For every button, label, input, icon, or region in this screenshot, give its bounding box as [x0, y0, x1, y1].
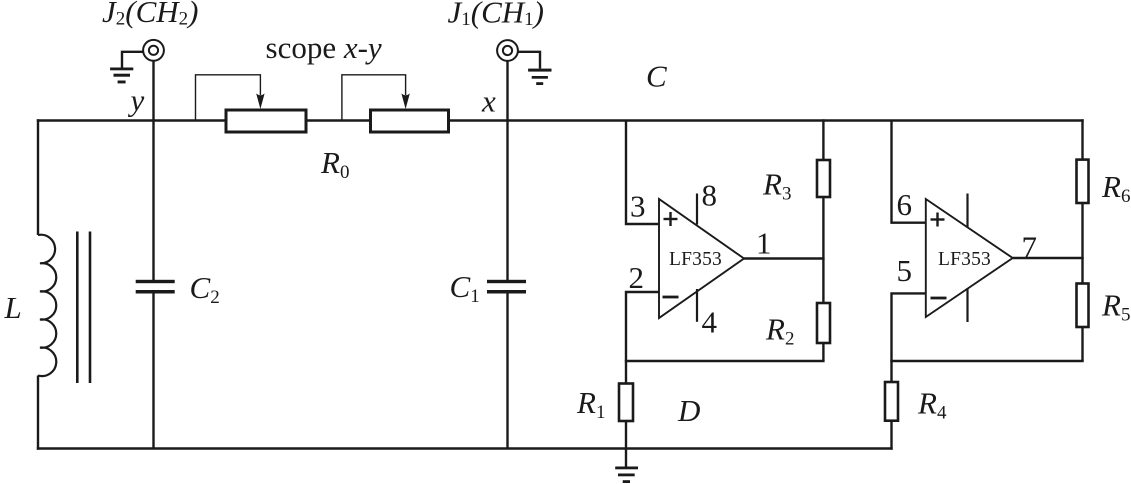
wire feedback net U2 (pin5 to R5 bottom): [890, 360, 1083, 362]
wire U1 pin3 branch from top rail: [626, 121, 659, 225]
svg-text:R3: R3: [762, 167, 791, 205]
svg-text:x: x: [481, 84, 496, 119]
wire R1 bottom lead to bottom rail: [625, 421, 627, 449]
svg-text:1: 1: [756, 226, 772, 261]
svg-text:scope x-y: scope x-y: [266, 30, 382, 65]
wire feedback net U1 (pin2 to R2 bottom): [625, 360, 825, 362]
svg-text:J1(CH1): J1(CH1): [448, 0, 544, 30]
inductor core line 1: [76, 232, 79, 384]
wire bottom rail D from left corner to R4 column: [37, 447, 893, 449]
wire C1 bottom plate to bottom rail: [506, 294, 508, 449]
svg-text:R0: R0: [320, 145, 349, 183]
wiper arrow 2 head: [401, 94, 409, 110]
potentiometer R0 element 2: [371, 110, 449, 132]
svg-text:R1: R1: [576, 385, 605, 423]
op-amp U1 pin8 power stub: [696, 194, 698, 225]
wire R5 bottom lead to feedback net: [1081, 327, 1083, 361]
wire left vertical upper (top rail to inductor): [37, 119, 39, 235]
svg-text:4: 4: [702, 305, 718, 340]
wire J2 jack down through node y to C2 top plate: [152, 61, 154, 280]
wire R3 top lead to top rail: [822, 119, 824, 160]
wire left vertical lower (inductor to bottom rail): [37, 376, 39, 450]
op-amp U1 minus input mark: [663, 296, 679, 299]
wire R6 top lead to top rail: [1081, 119, 1083, 159]
svg-text:R6: R6: [1101, 169, 1130, 207]
wiper arrow 1 head: [256, 94, 264, 110]
resistor R3: [817, 160, 830, 197]
wire R2 bottom lead to feedback net: [822, 343, 824, 361]
wire R4 bottom lead to bottom rail: [890, 421, 892, 450]
resistor R4: [885, 382, 898, 421]
wire scope-y wiper bracket: [196, 75, 261, 121]
svg-text:C: C: [646, 59, 667, 94]
svg-text:7: 7: [1022, 230, 1038, 265]
svg-text:R4: R4: [917, 386, 947, 424]
wire C2 bottom plate to bottom rail: [152, 294, 154, 449]
wire R4 top lead: [890, 361, 892, 382]
wire J2 ground stub: [122, 52, 144, 68]
op-amp U1 plus input mark: [664, 212, 678, 226]
wire scope-x wiper bracket: [342, 75, 406, 121]
svg-text:R2: R2: [765, 312, 794, 350]
wire R6 bottom lead to output node: [1081, 203, 1083, 258]
svg-text:C1: C1: [450, 269, 480, 307]
op-amp U2 top power stub: [966, 194, 968, 228]
op-amp U2 bottom power stub: [966, 288, 968, 322]
svg-text:8: 8: [702, 178, 718, 213]
resistor R1: [619, 384, 633, 422]
op-amp U2 triangle: [926, 199, 1013, 317]
wire U1 pin2 branch down to feedback: [626, 292, 659, 361]
resistor R6: [1077, 160, 1089, 203]
op-amp U1 triangle: [659, 199, 744, 318]
ground symbol at J1: [528, 69, 551, 85]
svg-text:3: 3: [630, 189, 646, 224]
wire top rail C from left corner to right column: [37, 119, 1084, 121]
ground symbol at J2: [110, 68, 133, 84]
svg-text:R5: R5: [1101, 288, 1130, 326]
wire R3 bottom lead to output node: [822, 197, 824, 259]
wire R2 top lead from output node: [822, 259, 824, 304]
svg-text:C2: C2: [190, 270, 220, 308]
resistor R5: [1077, 284, 1089, 328]
svg-text:D: D: [677, 393, 700, 428]
svg-text:LF353: LF353: [938, 249, 991, 270]
wire J1 jack down through node x to C1 top plate: [506, 61, 508, 280]
svg-text:y: y: [128, 83, 145, 118]
capacitor C1 plates: [487, 280, 526, 294]
resistor R2: [817, 303, 830, 343]
wire R5 top lead from output node: [1081, 258, 1083, 284]
svg-text:6: 6: [897, 187, 913, 222]
connector jack J2: [143, 40, 164, 61]
svg-text:L: L: [4, 290, 22, 325]
potentiometer R0 element 1: [226, 110, 306, 132]
inductor L coil: [38, 235, 56, 376]
svg-text:LF353: LF353: [669, 249, 722, 270]
wire U2 pin5 branch down to feedback: [892, 293, 926, 361]
wire R1 top lead: [625, 361, 627, 384]
svg-text:J2(CH2): J2(CH2): [102, 0, 198, 30]
wire U1 output pin1 to R3/R2 column: [744, 257, 825, 259]
op-amp U2 plus input mark: [931, 213, 945, 227]
svg-text:5: 5: [897, 253, 913, 288]
wire U2 pin6 branch from top rail: [892, 121, 926, 223]
wire ground stub below bottom rail: [625, 449, 627, 467]
op-amp U1 pin4 power stub: [696, 289, 698, 322]
svg-text:2: 2: [629, 260, 645, 295]
wire J1 ground stub: [518, 52, 540, 69]
inductor core line 2: [89, 232, 92, 384]
wire U2 output pin7 to right column: [1013, 257, 1084, 259]
ground symbol bottom center: [615, 467, 638, 484]
capacitor C2 plates: [136, 280, 175, 294]
connector jack J1: [497, 40, 518, 61]
op-amp U2 minus input mark: [931, 297, 947, 300]
